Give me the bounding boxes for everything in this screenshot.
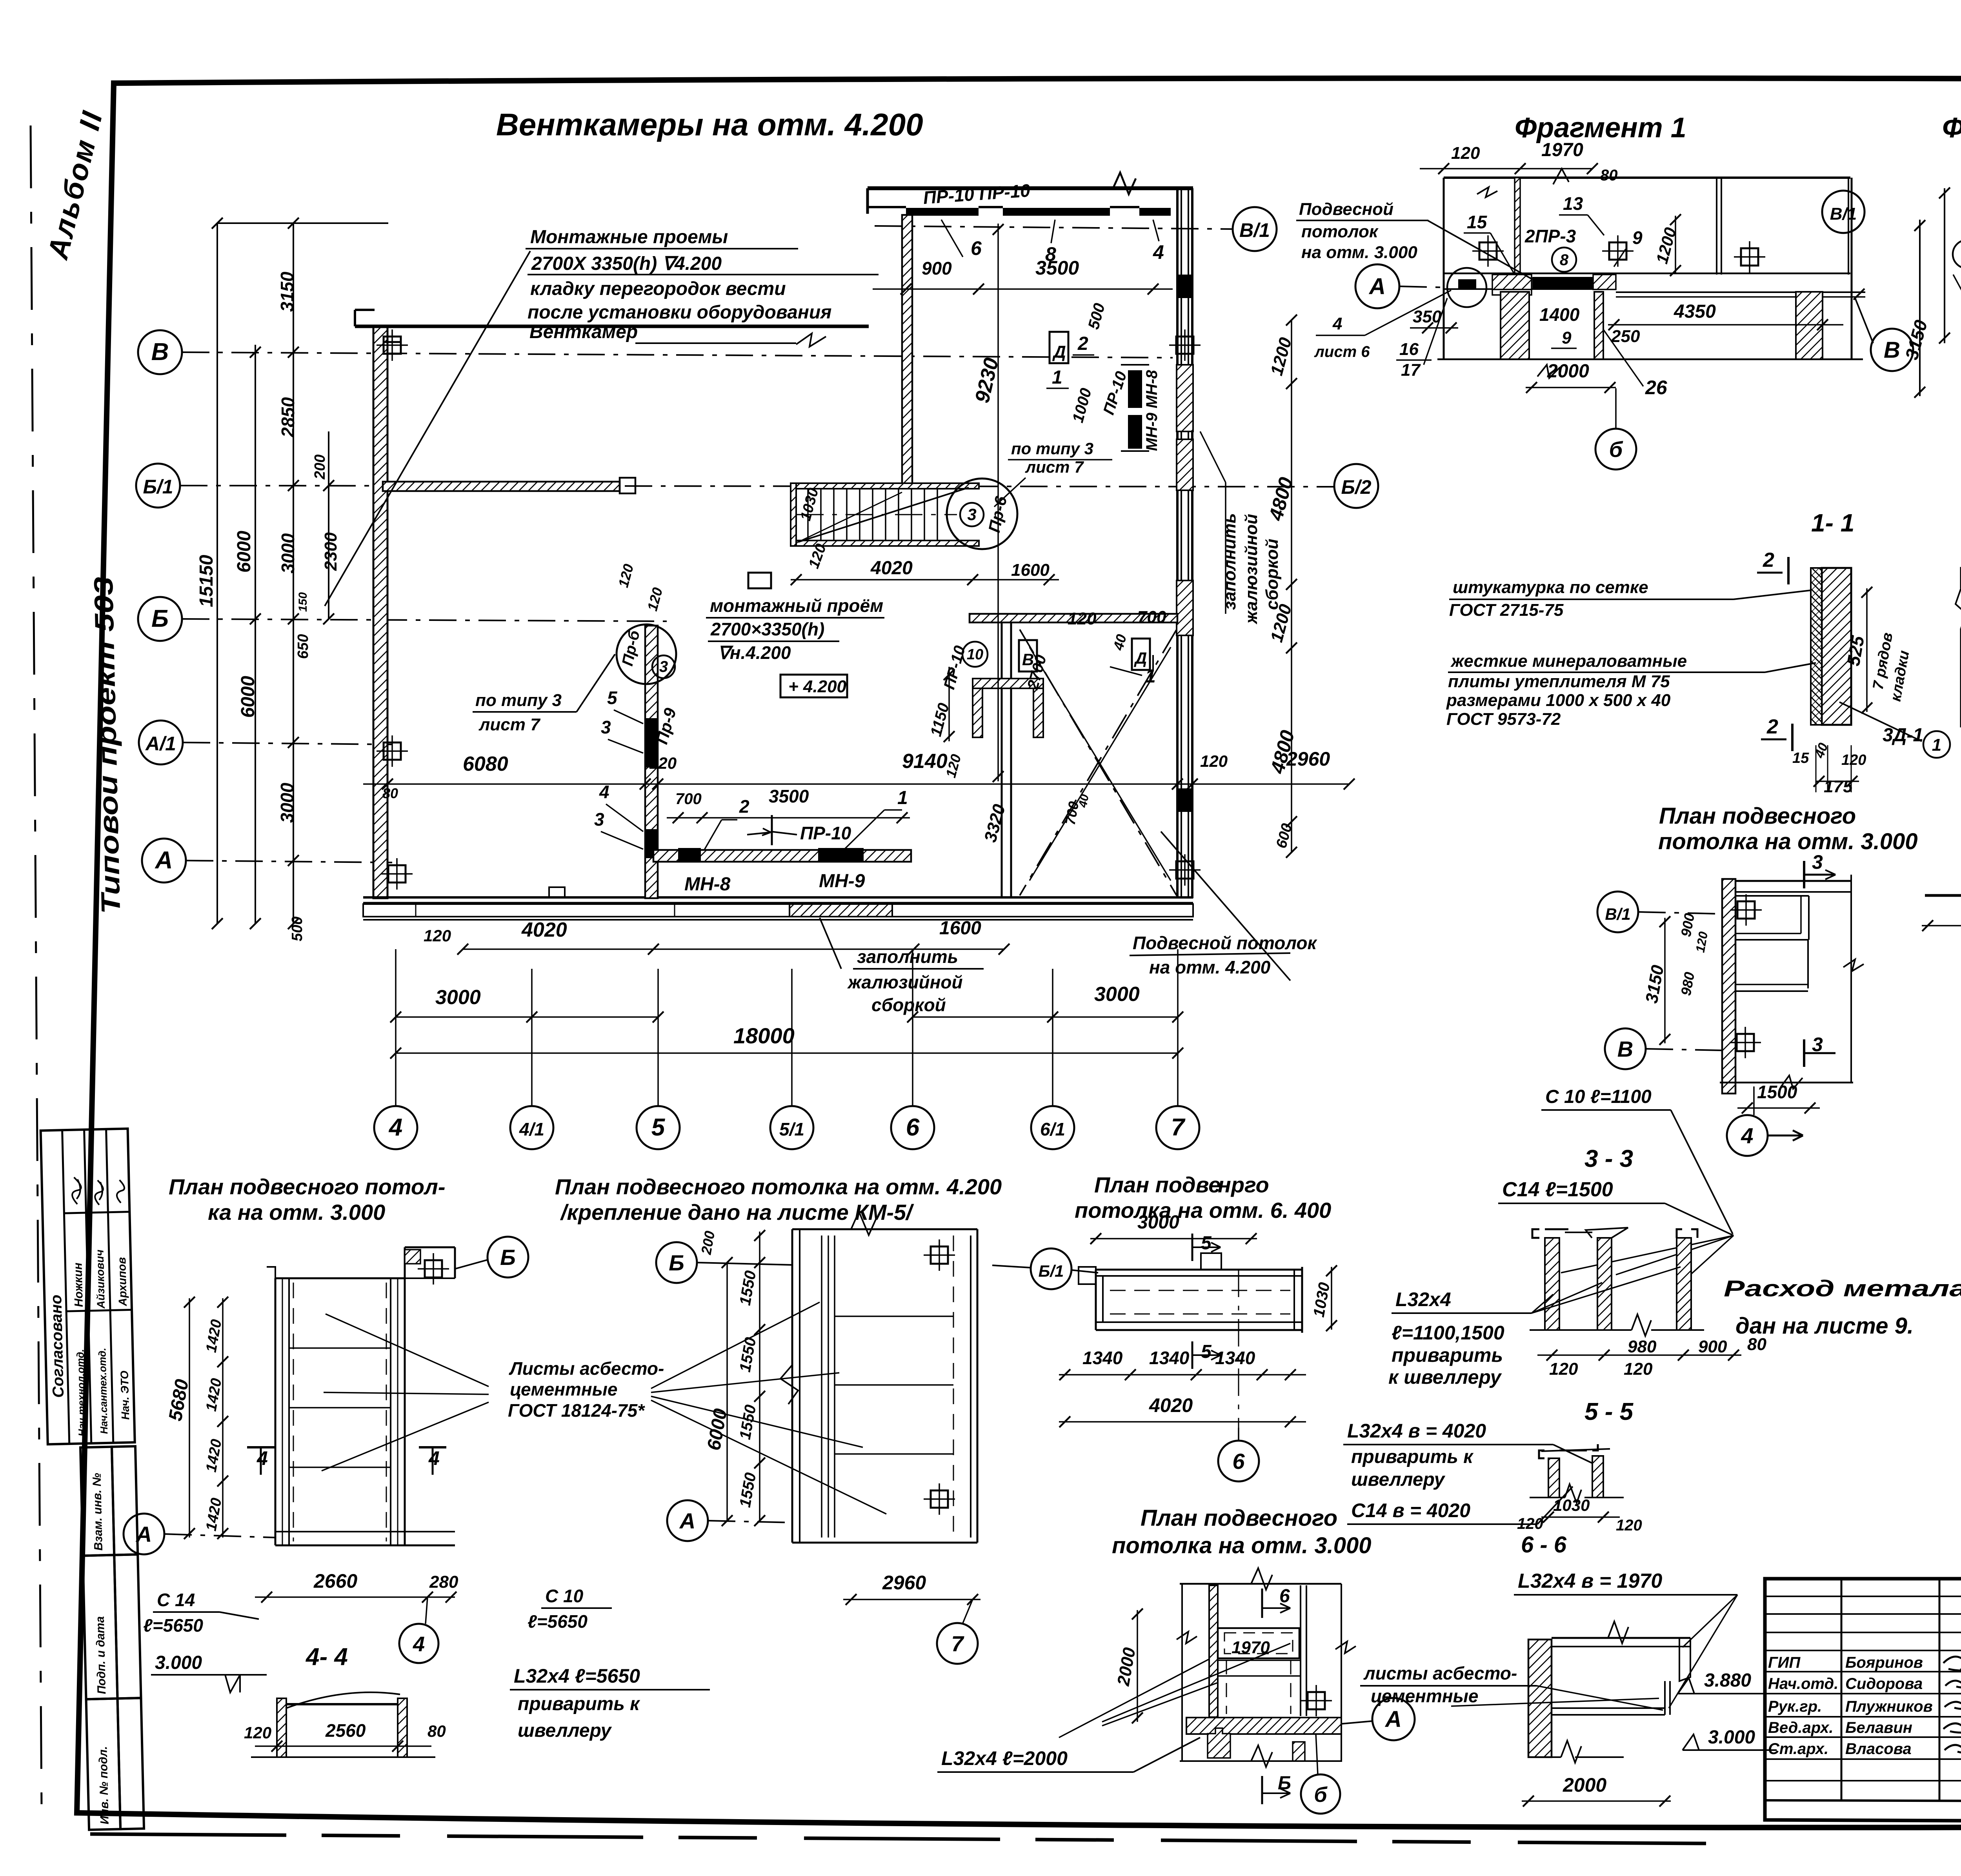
svg-text:А: А: [1368, 274, 1386, 299]
svg-text:Б/2: Б/2: [1341, 476, 1371, 498]
svg-text:3000: 3000: [1137, 1212, 1179, 1233]
svg-text:120: 120: [1841, 752, 1866, 768]
leader from note: [325, 251, 530, 606]
dim 4020 1600: [463, 948, 1004, 950]
svg-text:120: 120: [1624, 1359, 1653, 1379]
svg-text:16: 16: [1399, 340, 1419, 359]
axis circle В/1: [1233, 207, 1277, 251]
duct С-shape: [973, 679, 982, 737]
svg-text:2ПР-3: 2ПР-3: [1524, 226, 1576, 246]
svg-text:1340: 1340: [1215, 1348, 1255, 1368]
svg-text:L32х4 ℓ=2000: L32х4 ℓ=2000: [941, 1747, 1068, 1769]
3-3 bottom line: [1530, 1329, 1632, 1331]
bl plan top-left notch: [267, 1267, 275, 1278]
3-3 dims 980 900 80 120 120: [1537, 1354, 1741, 1356]
section 1-1 dim 525 7 рядов кладки: [1866, 588, 1868, 712]
svg-text:26: 26: [1645, 377, 1668, 398]
svg-text:Инв. № подл.: Инв. № подл.: [96, 1746, 111, 1825]
svg-text:А: А: [1384, 1707, 1402, 1732]
svg-text:Нач. ЭТО: Нач. ЭТО: [118, 1370, 132, 1420]
svg-text:А: А: [155, 847, 173, 874]
dimension line 3150/2850/3000/3000: [293, 223, 294, 924]
svg-text:кладку перегородок вести: кладку перегородок вести: [530, 278, 786, 299]
axis line В: [182, 352, 1173, 358]
bc lower pier right: [1293, 1742, 1305, 1761]
svg-text:L32х4 в = 4020: L32х4 в = 4020: [1347, 1420, 1486, 1442]
bottom room partition (hatched): [653, 850, 911, 862]
6-6 top break: [1608, 1621, 1628, 1643]
lintel bar 4: [1139, 208, 1171, 216]
svg-text:цементные: цементные: [1371, 1686, 1479, 1706]
fragment1 left wall: [1443, 178, 1445, 360]
svg-text:3000: 3000: [1094, 983, 1140, 1006]
svg-text:150: 150: [297, 592, 309, 612]
fragment1 hatched band parts: [1492, 275, 1532, 289]
svg-text:4: 4: [256, 1447, 268, 1469]
svg-text:Вед.арх.: Вед.арх.: [1768, 1719, 1834, 1736]
svg-text:1: 1: [1052, 367, 1062, 388]
svg-text:200: 200: [312, 455, 328, 480]
fragment1 right wall: [1848, 178, 1849, 275]
6-6 bottom break: [1561, 1741, 1581, 1763]
detail 3Д-1 plate: [1925, 894, 1961, 897]
svg-text:3: 3: [659, 658, 668, 675]
bc circle б: [1301, 1774, 1340, 1814]
svg-text:План подве: План подве: [1094, 1172, 1221, 1197]
svg-text:17: 17: [1401, 360, 1421, 380]
svg-text:900: 900: [922, 258, 952, 278]
svg-text:Айзикович: Айзикович: [94, 1250, 107, 1309]
svg-text:1500: 1500: [1757, 1082, 1797, 1102]
svg-text:к швеллеру: к швеллеру: [1388, 1366, 1502, 1388]
6-6 drawing: [1528, 1639, 1552, 1757]
svg-text:Подвесной: Подвесной: [1299, 200, 1393, 219]
bl circle Б: [488, 1237, 528, 1277]
fragment1 inner double wall: [1716, 178, 1717, 275]
svg-text:плиты утеплителя М 75: плиты утеплителя М 75: [1448, 672, 1670, 691]
svg-text:900: 900: [1698, 1337, 1727, 1356]
svg-text:1600: 1600: [939, 918, 981, 939]
svg-text:120: 120: [1200, 752, 1228, 770]
svg-text:ГОСТ 9573-72: ГОСТ 9573-72: [1446, 710, 1561, 729]
svg-text:10: 10: [967, 646, 983, 663]
bm plan bolts: [931, 1246, 948, 1264]
svg-text:4: 4: [388, 1114, 402, 1141]
svg-text:980: 980: [1628, 1337, 1657, 1356]
svg-text:L32х4 в = 1970: L32х4 в = 1970: [1518, 1570, 1662, 1592]
svg-text:Б/1: Б/1: [1039, 1262, 1064, 1280]
svg-text:120: 120: [424, 926, 451, 945]
bc right border: [1341, 1584, 1342, 1762]
svg-text:1600: 1600: [1011, 560, 1050, 580]
svg-text:175: 175: [1824, 777, 1853, 796]
stairwell walls: [791, 483, 979, 489]
svg-text:Бояринов: Бояринов: [1845, 1654, 1923, 1671]
svg-text:Рук.гр.: Рук.гр.: [1768, 1698, 1822, 1715]
svg-text:Ст.арх.: Ст.арх.: [1768, 1740, 1828, 1758]
svg-text:3: 3: [1812, 851, 1823, 873]
dim 900 / 3500 (vent strip): [873, 288, 1173, 290]
svg-text:4/1: 4/1: [519, 1119, 544, 1139]
fragment1 dim 2000: [1526, 387, 1616, 388]
bc left wall (hatched): [1209, 1585, 1218, 1717]
svg-text:монтажный проём: монтажный проём: [710, 595, 883, 616]
svg-text:Архипов: Архипов: [116, 1257, 129, 1306]
p64 circle Б/1: [1031, 1248, 1071, 1289]
svg-text:700: 700: [1137, 608, 1166, 627]
right wall block 2: [1177, 580, 1193, 635]
svg-text:6000: 6000: [238, 676, 258, 718]
svg-text:3: 3: [601, 717, 611, 737]
mid plan circle В: [1605, 1028, 1646, 1069]
5-5 drawing: [1548, 1458, 1559, 1498]
bc horizontals: [1218, 1659, 1301, 1661]
svg-text:2000: 2000: [1563, 1774, 1606, 1796]
fragment1 bottom line: [1437, 358, 1863, 360]
svg-text:7: 7: [951, 1631, 964, 1656]
svg-text:по типу 3: по типу 3: [1011, 439, 1093, 458]
svg-text:ка на отм. 3.000: ка на отм. 3.000: [208, 1200, 385, 1225]
approval table Согласовано: [41, 1129, 135, 1445]
fragment1 lintel 2ПР-3 bar: [1532, 277, 1593, 289]
svg-text:В/1: В/1: [1830, 204, 1857, 224]
svg-text:ГИП: ГИП: [1768, 1654, 1801, 1671]
svg-text:приварить к: приварить к: [1351, 1447, 1474, 1467]
fragment1 detail circle: [1447, 268, 1486, 307]
fragment1 circle 8: [1552, 247, 1576, 272]
svg-text:С 10 ℓ=1100: С 10 ℓ=1100: [1545, 1086, 1652, 1107]
bm dims 200 1550x4 6000: [726, 1263, 728, 1521]
fragment1 piers below: [1501, 292, 1529, 359]
svg-text:4: 4: [1741, 1123, 1753, 1148]
svg-text:размерами 1000 х 500 х 40: размерами 1000 х 500 х 40: [1446, 691, 1671, 710]
fragment1 bolts: [1479, 242, 1497, 260]
axis circle А/1: [139, 721, 183, 764]
svg-text:Б: Б: [669, 1250, 684, 1275]
svg-text:120: 120: [1517, 1515, 1543, 1532]
axis circle 6: [891, 1106, 934, 1149]
svg-text:3500: 3500: [1035, 257, 1079, 279]
svg-text:цементные: цементные: [510, 1379, 618, 1399]
svg-text:жалюзийной: жалюзийной: [1242, 514, 1261, 624]
svg-text:40: 40: [1076, 793, 1091, 809]
dimension line 15150: [216, 223, 218, 924]
top dim connector: [217, 222, 388, 224]
svg-text:5 - 5: 5 - 5: [1584, 1398, 1634, 1425]
svg-text:лист 7: лист 7: [1025, 458, 1084, 476]
svg-text:2000: 2000: [1547, 361, 1589, 382]
svg-text:1030: 1030: [1553, 1496, 1590, 1514]
margin cell Взам. инв. №: [80, 1447, 114, 1556]
diag cross room (exhaust shaft): [1020, 630, 1177, 895]
svg-text:4.200: 4.200: [674, 253, 722, 274]
bc circle А: [1372, 1698, 1415, 1740]
svg-text:4- 4: 4- 4: [305, 1643, 348, 1670]
axis line Б: [182, 619, 667, 621]
svg-text:ℓ=1100,1500: ℓ=1100,1500: [1392, 1322, 1504, 1344]
svg-text:Фрагмент 1: Фрагмент 1: [1515, 112, 1686, 144]
svg-text:сборкой: сборкой: [1262, 539, 1282, 610]
svg-text:3: 3: [967, 505, 976, 524]
svg-text:Сидорова: Сидорова: [1845, 1675, 1923, 1692]
boxed +4.200: [780, 675, 847, 697]
bl dim 2660 280: [255, 1596, 455, 1598]
svg-text:∇н.4.200: ∇н.4.200: [718, 642, 791, 663]
bl dim 5680: [189, 1298, 190, 1538]
dim 6080 9140 120 2960: [363, 783, 1349, 785]
stair dim 120 4020 1600: [791, 579, 1059, 580]
fragment3 dim 3150: [1944, 188, 1945, 343]
svg-text:L32х4: L32х4: [1395, 1288, 1451, 1310]
mid plan circle 4: [1727, 1115, 1768, 1156]
exterior wall left (hatched): [373, 326, 387, 898]
dimension line 200/2300: [328, 431, 329, 619]
svg-text:С 10: С 10: [545, 1586, 584, 1606]
wall above МН (hatched): [970, 614, 1177, 622]
lintel ПР-10 bar 6: [906, 208, 979, 216]
svg-text:2: 2: [1763, 549, 1774, 571]
svg-text:после установки оборудования: после установки оборудования: [528, 302, 831, 323]
fragment1 top line: [1444, 177, 1850, 179]
svg-text:План подвесного: План подвесного: [1659, 803, 1856, 829]
p64 dim 3000: [1090, 1238, 1257, 1239]
svg-text:2960: 2960: [882, 1572, 926, 1594]
axis circle 5/1: [770, 1106, 813, 1149]
svg-text:Плужников: Плужников: [1845, 1698, 1933, 1715]
bl plan top-right extension: [405, 1246, 455, 1248]
mid plan circle В/1: [1597, 892, 1638, 932]
stair big circle Пр-6: [947, 479, 1017, 549]
svg-text:б: б: [1609, 437, 1623, 462]
svg-text:4350: 4350: [1674, 301, 1716, 322]
bl circle А: [124, 1514, 164, 1554]
svg-text:2560: 2560: [325, 1720, 366, 1741]
svg-text:листы асбесто-: листы асбесто-: [1363, 1663, 1517, 1683]
svg-text:120: 120: [1549, 1359, 1578, 1379]
В axis bolt on left wall: [384, 342, 401, 354]
svg-text:Б: Б: [151, 605, 169, 632]
small open square symbol: [748, 573, 771, 588]
svg-text:3000: 3000: [277, 782, 297, 823]
svg-text:потолка на отм. 3.000: потолка на отм. 3.000: [1112, 1533, 1372, 1558]
svg-text:8: 8: [1045, 243, 1056, 265]
svg-text:13: 13: [1563, 193, 1583, 214]
fragment1 notch profile: [1492, 289, 1532, 300]
bm circle Б/1: [992, 1265, 1031, 1268]
svg-text:швеллеру: швеллеру: [518, 1720, 612, 1741]
mid plan bolts: [1737, 901, 1755, 919]
svg-text:15150: 15150: [196, 555, 217, 607]
svg-text:нрго: нрго: [1218, 1172, 1269, 1197]
svg-text:L32х4 ℓ=5650: L32х4 ℓ=5650: [514, 1665, 640, 1687]
svg-text:6080: 6080: [463, 753, 508, 775]
bl plan dashed inner: [293, 1283, 294, 1541]
svg-text:5: 5: [1201, 1233, 1212, 1254]
svg-text:/крепление дано на листе К: /крепление дано на листе КМ-5/: [560, 1200, 914, 1225]
svg-text:заполнить: заполнить: [1220, 513, 1239, 610]
svg-text:План подвесного: План подвесного: [1141, 1505, 1337, 1531]
svg-text:280: 280: [429, 1572, 458, 1592]
svg-text:Подвесной потолок: Подвесной потолок: [1133, 933, 1317, 953]
bc dim 2000: [1137, 1610, 1138, 1722]
svg-text:3: 3: [594, 809, 604, 830]
svg-text:80: 80: [427, 1722, 446, 1740]
svg-text:ℓ=5650: ℓ=5650: [528, 1611, 588, 1632]
svg-text:потолок: потолок: [1301, 222, 1379, 241]
fragment1 dim 120 1970 80: [1420, 168, 1592, 169]
svg-text:9140: 9140: [902, 750, 948, 773]
break mark on top wall: [1113, 173, 1136, 194]
svg-text:9: 9: [1562, 328, 1572, 348]
mid plan dim 1500: [1737, 1107, 1820, 1109]
dimension line 6000/6000: [255, 345, 256, 924]
bm circle Б: [656, 1242, 697, 1283]
svg-text:МН-8: МН-8: [684, 874, 731, 895]
bc plan top edge: [1180, 1583, 1341, 1585]
svg-text:4: 4: [1153, 241, 1164, 263]
svg-text:7: 7: [1171, 1114, 1186, 1141]
svg-text:350: 350: [1413, 307, 1442, 326]
svg-text:4020: 4020: [1149, 1394, 1193, 1416]
dim 700 3500 bottom room: [667, 817, 910, 819]
svg-text:18000: 18000: [733, 1023, 795, 1048]
svg-text:700: 700: [675, 790, 702, 808]
mid plan right wall line: [1850, 875, 1852, 1083]
wall top-left: [355, 325, 869, 328]
svg-text:5: 5: [1201, 1341, 1212, 1362]
svg-text:лист 6: лист 6: [1314, 343, 1370, 360]
lintel bar 4/3 lower: [646, 829, 657, 858]
fragment1 circle А: [1355, 264, 1399, 308]
svg-text:8: 8: [1560, 251, 1569, 269]
bl dim 1420 x4: [222, 1298, 224, 1538]
svg-text:6 - 6: 6 - 6: [1521, 1532, 1567, 1558]
p64 left cap: [1079, 1267, 1096, 1284]
svg-text:2700×3350(h): 2700×3350(h): [710, 619, 824, 639]
title block outline: [1765, 1579, 1961, 1823]
svg-text:4: 4: [1332, 314, 1342, 333]
axis line Б/1-Б/2: [180, 486, 1333, 487]
svg-text:План подвесного потол-: План подвесного потол-: [169, 1174, 446, 1199]
bl circle 4: [399, 1624, 438, 1663]
svg-text:б: б: [1314, 1783, 1328, 1807]
svg-text:6/1: 6/1: [1040, 1119, 1065, 1139]
svg-text:потолка на отм. 6. 400: потолка на отм. 6. 400: [1075, 1198, 1331, 1223]
svg-text:4: 4: [413, 1632, 425, 1656]
svg-text:В: В: [1617, 1037, 1633, 1061]
svg-text:Д: Д: [1134, 649, 1147, 667]
svg-text:15: 15: [1467, 212, 1488, 232]
bc box 1970: [1218, 1628, 1299, 1658]
svg-text:Д: Д: [1052, 342, 1066, 362]
bm circle А: [667, 1500, 708, 1541]
svg-text:1340: 1340: [1149, 1348, 1190, 1368]
svg-text:Венткамеры на отм. 4.200: Венткамеры на отм. 4.200: [496, 107, 923, 142]
svg-text:План подвесного потолка на: План подвесного потолка на отм. 4.200: [555, 1174, 1002, 1199]
svg-text:4: 4: [599, 782, 609, 802]
vent strip left wall: [866, 188, 869, 214]
bolt symbols on walls: [384, 337, 401, 354]
svg-text:на отм. 3.000: на отм. 3.000: [1301, 243, 1417, 262]
axis circle 4/1: [510, 1106, 553, 1149]
svg-text:В/1: В/1: [1239, 219, 1270, 241]
mid plan bracket upper: [1808, 896, 1810, 940]
svg-text:3.000: 3.000: [1708, 1727, 1755, 1748]
axis circle 7: [1156, 1106, 1199, 1149]
svg-text:2660: 2660: [313, 1570, 357, 1592]
right wall block 3: [1178, 275, 1192, 298]
svg-text:А: А: [135, 1522, 152, 1547]
svg-text:5/1: 5/1: [779, 1119, 804, 1139]
svg-text:лист 7: лист 7: [478, 715, 541, 734]
partition x2560 vertical: [1001, 622, 1003, 897]
svg-text:120: 120: [649, 754, 677, 772]
svg-text:250: 250: [1611, 327, 1640, 346]
svg-text:Ножкин: Ножкин: [71, 1263, 85, 1307]
axis circle Б/1: [136, 464, 180, 508]
svg-text:ПР-10: ПР-10: [800, 823, 851, 843]
svg-text:1400: 1400: [1539, 304, 1580, 325]
axis circle А: [142, 839, 186, 883]
lintel ПР-10 bar 8: [1003, 208, 1110, 216]
svg-text:1340: 1340: [1082, 1348, 1123, 1368]
bm plan top break: [851, 1212, 876, 1235]
svg-text:6: 6: [1232, 1449, 1245, 1474]
fragment1 break marks: [1477, 187, 1497, 197]
svg-text:Белавин: Белавин: [1845, 1719, 1912, 1736]
svg-text:Б: Б: [500, 1245, 516, 1270]
stair axis: [796, 514, 957, 515]
svg-text:сборкой: сборкой: [871, 995, 946, 1015]
svg-text:В/1: В/1: [1605, 905, 1630, 923]
svg-text:15: 15: [1792, 750, 1809, 766]
axis circle 5: [637, 1106, 680, 1149]
svg-text:Расход метала на 3Д-1 и з: Расход метала на 3Д-1 и закладные детали: [1724, 1276, 1961, 1301]
mid plan lower bracket: [1735, 939, 1808, 941]
bl 4-4 detail: [286, 1692, 400, 1708]
axis circle В: [138, 330, 182, 374]
bm dim 2960: [843, 1599, 980, 1600]
3-3 posts: [1545, 1238, 1559, 1330]
svg-text:Нач.технол.отд.: Нач.технол.отд.: [74, 1349, 88, 1437]
svg-text:С14 ℓ=1500: С14 ℓ=1500: [1502, 1178, 1613, 1201]
detail 3Д-1 dim 200: [1922, 925, 1961, 926]
bc fan lines: [1102, 1643, 1290, 1722]
svg-text:1: 1: [897, 788, 908, 808]
svg-text:жесткие минераловатные: жесткие минераловатные: [1450, 651, 1687, 671]
svg-text:+ 4.200: + 4.200: [788, 677, 847, 696]
svg-text:6: 6: [971, 237, 982, 259]
section 1-1 wall: [1822, 568, 1851, 725]
bc left border: [1181, 1584, 1183, 1762]
bottom wall hatched segment: [789, 904, 892, 917]
lintel МН-8 bar: [678, 848, 701, 861]
svg-text:5: 5: [607, 688, 618, 708]
svg-text:120: 120: [1451, 144, 1480, 163]
bc hatched band: [1186, 1718, 1341, 1734]
axis circle 4: [374, 1106, 417, 1149]
svg-text:2300: 2300: [321, 532, 340, 571]
svg-text:Фрагмент 3: Фрагмент 3: [1942, 112, 1961, 144]
bm plan horizontals: [835, 1316, 953, 1317]
p64 dim 1030: [1331, 1267, 1332, 1330]
svg-text:Венткамер: Венткамер: [529, 322, 638, 342]
bc lower pier left (notched): [1208, 1728, 1230, 1758]
svg-text:В: В: [151, 338, 169, 366]
svg-text:МН-9: МН-9: [819, 871, 865, 892]
hatched block on right wall at Б/2: [1177, 439, 1193, 490]
fragment1 small bar in circle: [1458, 279, 1476, 289]
